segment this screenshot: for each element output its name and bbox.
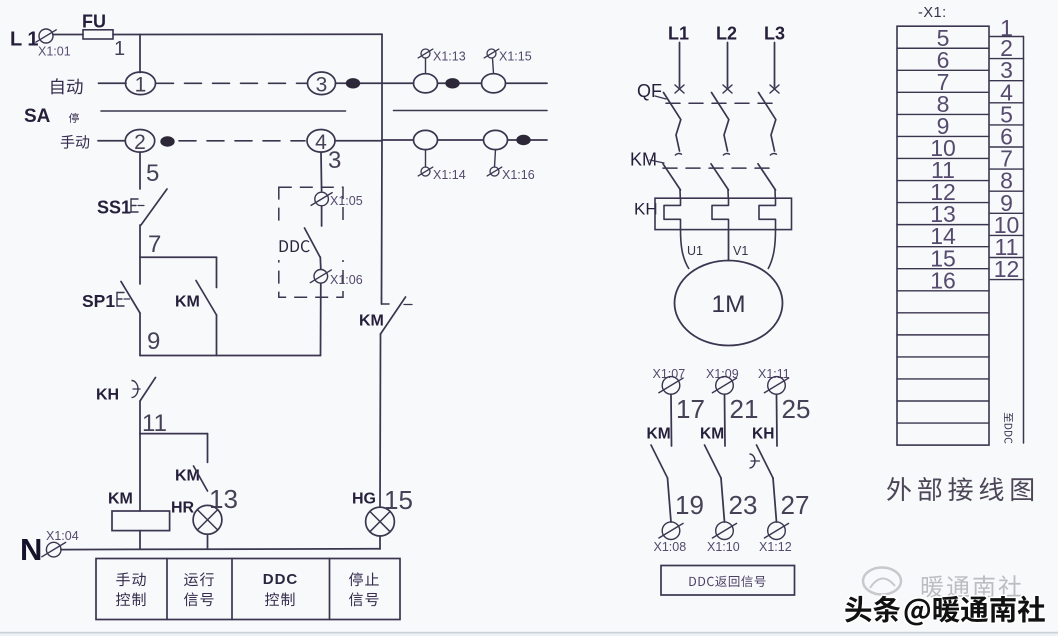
right branch wire top — [381, 34, 383, 83]
right column divider 11 — [990, 257, 1024, 259]
svg-text:27: 27 — [781, 490, 810, 520]
terminal X1:12 — [768, 522, 786, 540]
terminal strip divider 17 — [897, 400, 989, 402]
watermark headline text — [845, 596, 1045, 626]
right column divider 8 — [990, 190, 1024, 192]
terminal symbol X1:13 — [421, 49, 430, 58]
right column divider 2 — [990, 58, 1024, 60]
wire to X1:10 — [721, 478, 725, 522]
svg-text:KH: KH — [634, 200, 658, 219]
terminal symbol X1:15 — [487, 49, 496, 58]
contact ellipse row2 b — [484, 130, 508, 149]
right column divider 3 — [990, 80, 1024, 82]
motor 1M — [675, 261, 783, 346]
thermal relay KH box — [655, 198, 792, 229]
wire node11 to KM aux lamp branch — [207, 434, 209, 463]
svg-text:HG: HG — [352, 491, 376, 508]
svg-text:KM: KM — [647, 426, 671, 443]
svg-text:DDC: DDC — [263, 571, 299, 588]
external wiring diagram caption — [887, 477, 1033, 501]
stub X1:13 — [425, 59, 427, 74]
wire fuse to node — [113, 33, 382, 35]
svg-text:KM: KM — [630, 150, 657, 170]
breaker terminal cross 3 — [770, 85, 779, 93]
stub X1:14 — [425, 150, 427, 167]
motor lead 2 — [728, 230, 730, 261]
svg-text:SP1: SP1 — [82, 291, 115, 311]
right column divider 4 — [990, 102, 1024, 104]
svg-text:X1:14: X1:14 — [433, 168, 466, 182]
wire coil to neutral — [139, 531, 141, 549]
wire X1:05 down — [321, 206, 323, 226]
svg-text:X1:11: X1:11 — [758, 367, 790, 381]
bottom edge shading — [0, 632, 1058, 634]
svg-text:25: 25 — [782, 394, 811, 424]
svg-text:9: 9 — [147, 328, 160, 355]
contactor KM pole 1 — [675, 153, 682, 155]
svg-text:X1:08: X1:08 — [654, 540, 687, 554]
svg-text:KH: KH — [96, 387, 119, 404]
wire row1 ext a — [382, 82, 414, 84]
wire KM to HG — [379, 334, 382, 507]
SA contact 4 — [307, 130, 335, 153]
wire node11 to KM coil — [139, 434, 141, 511]
SA linkage row1 dashed — [157, 82, 308, 84]
wire drop to SA contact 1 — [139, 34, 141, 72]
wire to contact 2 — [98, 140, 125, 142]
wire node7 to SP1 — [139, 257, 141, 284]
phase 3 drop wire — [774, 43, 776, 88]
svg-text:L 1: L 1 — [10, 29, 39, 51]
wire HG to neutral — [379, 536, 381, 549]
svg-text:HR: HR — [171, 500, 195, 517]
wire contact4 to X1:05 — [320, 152, 323, 191]
stub X1:15 — [493, 59, 494, 74]
breaker terminal cross 1 — [675, 85, 684, 93]
svg-text:4: 4 — [315, 131, 327, 154]
svg-text:1: 1 — [114, 38, 125, 60]
terminal strip divider 4 — [897, 113, 989, 115]
terminal symbol X1:14 — [421, 167, 430, 176]
svg-text:1M: 1M — [711, 291, 745, 318]
node 11 line — [140, 433, 208, 435]
wire SP1 down — [139, 313, 141, 356]
terminal strip divider 5 — [897, 135, 989, 137]
terminal strip divider 18 — [897, 422, 989, 424]
DDC return signal box — [661, 566, 795, 596]
node 7 branch line — [140, 256, 217, 258]
svg-text:SS1: SS1 — [97, 198, 131, 218]
terminal strip divider 9 — [897, 224, 989, 226]
svg-text:13: 13 — [209, 484, 238, 514]
terminal strip divider 15 — [897, 356, 989, 358]
svg-text:3: 3 — [316, 73, 328, 96]
svg-text:KM: KM — [108, 491, 133, 508]
svg-text:L1: L1 — [668, 24, 689, 44]
terminal strip divider 11 — [897, 268, 989, 270]
contactor KM linkage dashed — [663, 167, 777, 169]
svg-text:3: 3 — [328, 147, 341, 174]
svg-text:23: 23 — [729, 490, 758, 520]
svg-text:X1:01: X1:01 — [38, 45, 71, 59]
wire contact3 right — [336, 82, 383, 84]
svg-text:L3: L3 — [764, 24, 785, 44]
svg-text:V1: V1 — [733, 244, 748, 258]
svg-text:2: 2 — [134, 131, 146, 154]
breaker terminal cross 2 — [723, 85, 732, 93]
svg-text:X1:10: X1:10 — [707, 540, 740, 554]
phase 2 drop wire — [727, 43, 729, 88]
thermal relay heater 1 — [664, 198, 681, 229]
phase 1 drop wire — [679, 43, 681, 88]
DDC contact blade — [305, 228, 321, 257]
contact ellipse row2 a — [414, 130, 438, 149]
terminal X1:10 — [716, 522, 734, 540]
terminal X1:01 — [39, 29, 53, 43]
terminal symbol X1:16 — [490, 167, 499, 176]
wire HR to neutral — [207, 534, 209, 549]
contact ellipse row1 a — [414, 74, 438, 93]
motor lead 3 — [768, 230, 776, 269]
wire X1:07 down — [670, 394, 673, 446]
breaker QF pole 1 blade — [664, 93, 681, 152]
breaker QF pole 3 blade — [759, 93, 776, 152]
to DDC note (rotated) — [1004, 413, 1013, 444]
wire row2 ext c — [508, 139, 548, 141]
contactor KM pole 3 — [770, 153, 777, 155]
svg-text:17: 17 — [676, 394, 705, 424]
wire SS1 to node7 — [139, 225, 141, 257]
wire contact4 right — [335, 140, 382, 142]
svg-text:-X1:: -X1: — [918, 5, 947, 21]
SA separator line left — [101, 110, 346, 112]
terminal strip divider 12 — [897, 290, 989, 292]
right column divider 5 — [990, 124, 1024, 126]
svg-text:21: 21 — [730, 394, 759, 424]
wire to X1:08 — [668, 478, 672, 522]
breaker QF linkage dashed — [666, 102, 779, 104]
watermark ghost text — [922, 575, 1021, 597]
right column divider 7 — [990, 168, 1024, 170]
terminal strip divider 7 — [897, 180, 989, 182]
wire to contact 1 — [99, 82, 127, 84]
cell stop signal — [349, 572, 379, 586]
svg-text:X1:13: X1:13 — [433, 50, 466, 64]
terminal strip divider 10 — [897, 246, 989, 248]
terminal strip divider 1 — [897, 47, 989, 49]
cell run signal — [184, 572, 214, 586]
svg-text:U1: U1 — [687, 244, 703, 258]
SA separator line right — [394, 110, 548, 112]
wire L1 to fuse — [53, 34, 83, 36]
wire row2 ext a — [382, 139, 414, 141]
svg-text:X1:05: X1:05 — [330, 194, 363, 208]
svg-text:X1:09: X1:09 — [706, 367, 739, 381]
closed position dot row2 — [160, 136, 174, 146]
SA contact 2 — [125, 130, 154, 153]
svg-text:16: 16 — [930, 267, 956, 293]
wire row1 ext b — [438, 82, 482, 84]
svg-text:QF: QF — [637, 81, 662, 101]
SA position auto label — [51, 78, 82, 94]
terminal X1:05 — [315, 192, 329, 206]
wire X1:09 down — [724, 394, 727, 446]
SA position manual label — [61, 135, 89, 149]
DDC controller dashed box — [279, 187, 343, 297]
svg-text:X1:06: X1:06 — [330, 273, 363, 287]
svg-text:1: 1 — [135, 73, 147, 96]
SA linkage row2 dashed — [179, 140, 305, 142]
wire row2 ext b — [438, 139, 484, 141]
right column divider 9 — [990, 212, 1024, 214]
svg-text:X1:15: X1:15 — [499, 50, 532, 64]
right column divider 10 — [990, 234, 1024, 236]
terminal X1:08 — [662, 522, 680, 540]
right column divider 12 — [990, 279, 1024, 281]
SA contact 1 — [126, 72, 156, 95]
SA contact 3 — [308, 72, 336, 95]
svg-text:FU: FU — [82, 12, 106, 32]
dot row1 ext — [445, 78, 459, 88]
wire to X1:06 — [319, 257, 322, 269]
wire X1:06 to node9 — [320, 284, 322, 356]
terminal strip right column — [1023, 37, 1025, 444]
contact ellipse row1 b — [482, 74, 506, 93]
svg-text:KH: KH — [752, 426, 774, 443]
svg-text:KM: KM — [175, 294, 200, 311]
SA position stop label — [69, 113, 79, 123]
function table — [96, 559, 400, 620]
svg-text:X1:12: X1:12 — [759, 540, 792, 554]
motor lead 1 — [681, 230, 690, 269]
terminal strip divider 2 — [897, 69, 989, 71]
wire row1 ext c — [506, 82, 548, 84]
svg-text:N: N — [20, 532, 42, 567]
terminal strip divider 13 — [897, 312, 989, 314]
wire contact2 to SS1 — [139, 152, 141, 189]
wire to X1:12 — [773, 478, 777, 522]
svg-text:SA: SA — [24, 106, 51, 127]
svg-text:12: 12 — [994, 256, 1020, 282]
thermal relay heater 3 — [759, 198, 776, 229]
cell manual control — [116, 572, 145, 586]
breaker QF pole 2 blade — [712, 93, 729, 152]
contactor KM pole 2 — [723, 154, 730, 156]
terminal strip divider 14 — [897, 334, 989, 336]
closed position dot row1 — [346, 78, 360, 88]
svg-text:L2: L2 — [716, 24, 737, 44]
svg-text:X1:04: X1:04 — [46, 529, 79, 543]
svg-text:5: 5 — [146, 160, 159, 187]
terminal X1:06 — [314, 270, 328, 284]
wire KH to node11 — [139, 401, 141, 434]
thermal relay heater 2 — [712, 198, 729, 229]
DDC label — [280, 240, 310, 252]
svg-text:KM: KM — [359, 313, 384, 330]
terminal strip main box — [897, 26, 989, 445]
terminal strip divider 16 — [897, 378, 989, 380]
stub X1:16 — [495, 150, 496, 167]
svg-text:X1:16: X1:16 — [502, 168, 535, 182]
svg-text:19: 19 — [675, 490, 704, 520]
svg-text:KM: KM — [700, 426, 724, 443]
right column divider 1 — [990, 36, 1024, 38]
svg-text:7: 7 — [148, 231, 161, 258]
dot row2 ext — [516, 135, 530, 145]
node 9 line — [140, 355, 321, 357]
neutral wire — [61, 548, 380, 551]
terminal strip divider 8 — [897, 202, 989, 204]
wire X1:11 down — [776, 394, 779, 446]
terminal strip divider 6 — [897, 157, 989, 159]
watermark logo circle — [863, 568, 901, 595]
svg-text:X1:07: X1:07 — [653, 367, 686, 381]
right column divider 6 — [990, 146, 1024, 148]
terminal strip divider 3 — [897, 91, 989, 93]
